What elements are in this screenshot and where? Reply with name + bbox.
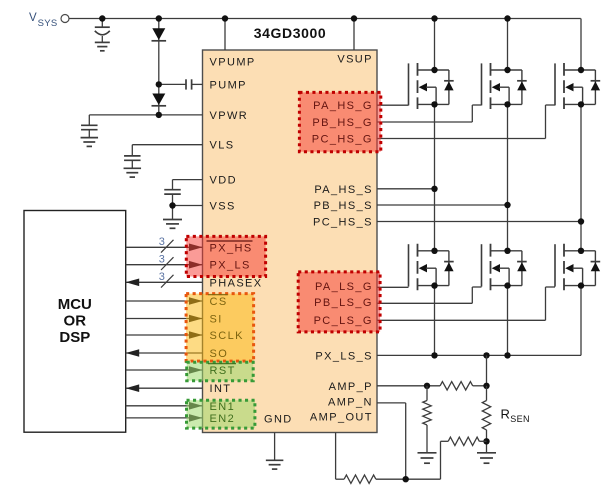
resistor RSEN (482, 386, 490, 453)
pin label VSS (210, 201, 236, 213)
pin label VLS (210, 140, 235, 152)
junction rail-C1 (99, 15, 105, 21)
highlight box RST (187, 362, 254, 380)
pin label AMP_P (329, 381, 373, 393)
svg-text:INT: INT (210, 383, 232, 395)
label 34GD3000 (254, 25, 327, 41)
transistor Q5 (phase C high-side) (555, 63, 600, 109)
wire PA_HS_G (377, 104, 409, 106)
pin label RST (208, 364, 236, 377)
svg-text:SEN: SEN (510, 414, 530, 424)
wire feedback to sense (441, 441, 449, 479)
wire VPWR (89, 114, 202, 116)
svg-text:AMP_N: AMP_N (328, 396, 373, 408)
resistor R3 (AMP_OUT feedback) (344, 475, 440, 483)
ground (IC GND) (266, 460, 284, 469)
label VSYS (29, 12, 58, 29)
svg-text:SI: SI (210, 314, 223, 326)
pin label VPUMP (210, 57, 256, 69)
transistor Q6 (phase C low-side) (555, 244, 600, 290)
svg-text:PC_HS_G: PC_HS_G (312, 134, 373, 146)
wire VDD (173, 179, 203, 181)
bus width label 3 (PX_LS) (159, 253, 165, 265)
svg-text:DSP: DSP (59, 329, 90, 346)
pin label PUMP (210, 79, 247, 91)
wire AMP_N (377, 403, 406, 479)
svg-text:3: 3 (159, 271, 165, 283)
junction rail-Q1 drain (431, 15, 437, 21)
wire PA_HS_S (377, 188, 435, 190)
pin label PC_LS_G (314, 315, 373, 327)
svg-text:PB_HS_S: PB_HS_S (314, 200, 373, 212)
svg-text:GND: GND (264, 414, 293, 426)
wire PB_HS_G (377, 105, 482, 122)
svg-text:34GD3000: 34GD3000 (254, 25, 327, 41)
MCU/DSP block (24, 211, 126, 433)
wire AMP_OUT (336, 433, 345, 480)
resistor R1 (AMP_P series) (440, 382, 486, 390)
svg-text:SYS: SYS (38, 18, 58, 29)
transistor Q3 (phase B high-side) (482, 63, 527, 109)
svg-text:3: 3 (159, 236, 165, 248)
wire RST (126, 366, 203, 374)
pin label PX_HS (207, 241, 253, 254)
svg-text:RST: RST (210, 365, 236, 377)
svg-text:PX_HS: PX_HS (210, 242, 253, 254)
pin label AMP_OUT (310, 412, 373, 424)
pin label SO (210, 348, 229, 360)
ground (R2) (418, 453, 437, 463)
junction rail-Q3 drain (504, 15, 510, 21)
capacitor C4 (VLS bypass) (124, 145, 141, 169)
wire PUMP (159, 83, 203, 85)
junction rail-D1 (156, 15, 162, 21)
junction D2-VPWR (156, 112, 162, 118)
wire SCLK (126, 331, 203, 339)
junction AMP_N node (403, 476, 409, 482)
pin label PHASEX (210, 277, 263, 289)
wire PA_LS_G (377, 286, 409, 288)
svg-text:PB_HS_G: PB_HS_G (312, 117, 373, 129)
svg-text:3: 3 (159, 253, 165, 265)
label MCU OR DSP (58, 296, 92, 346)
wire INT (126, 384, 203, 392)
svg-text:VLS: VLS (210, 140, 235, 152)
resistor R4 (AMP_N to sense) (448, 437, 486, 445)
wire PX_LS_S (377, 354, 581, 356)
wire PC_HS_G (377, 105, 555, 139)
capacitor C5 (VDD bypass) (164, 180, 181, 206)
pin label EN1 (210, 401, 236, 413)
highlight box HS gates (299, 92, 380, 151)
wire PB_LS_G (377, 287, 482, 303)
svg-text:SCLK: SCLK (210, 330, 244, 342)
svg-text:PX_LS_S: PX_LS_S (315, 351, 373, 363)
wire PX_HS (bus of 3) (126, 240, 203, 253)
wire phase B column (507, 19, 509, 356)
svg-text:PUMP: PUMP (210, 79, 247, 91)
pin label GND (264, 414, 293, 426)
ground (VSS) (163, 220, 182, 229)
highlight box EN1/EN2 (187, 400, 255, 428)
junction AMP_P-R2 (424, 383, 430, 389)
svg-text:AMP_P: AMP_P (329, 381, 373, 393)
highlight box PX_HS/PX_LS (186, 236, 265, 276)
svg-text:VSUP: VSUP (337, 54, 373, 66)
node VSYS terminal (61, 15, 69, 23)
svg-text:PX_LS: PX_LS (210, 260, 251, 272)
wire EN2 (126, 414, 203, 422)
svg-text:PC_LS_G: PC_LS_G (314, 315, 373, 327)
svg-text:EN1: EN1 (210, 401, 236, 413)
wire AMP_P (377, 385, 440, 387)
svg-text:OR: OR (64, 313, 87, 330)
svg-text:PA_HS_S: PA_HS_S (314, 184, 373, 196)
junction rail-VSUP (351, 15, 357, 21)
svg-text:CS: CS (210, 296, 228, 308)
highlight box SPI (CS/SI/SCLK/SO) (186, 294, 254, 362)
bus width label 3 (PHASEX) (159, 271, 165, 283)
pin label PA_HS_G (313, 100, 373, 112)
junction PX_LS_S-Q4 (504, 352, 510, 358)
junction D1-D2 PUMP (156, 81, 162, 87)
svg-text:R: R (501, 406, 510, 421)
svg-text:V: V (29, 12, 37, 24)
pin label INT (210, 383, 232, 395)
wire PHASEX (bus of 3) (126, 275, 203, 288)
wire PC_HS_S (377, 221, 581, 223)
pin label PB_HS_G (312, 117, 373, 129)
svg-text:MCU: MCU (58, 296, 92, 313)
svg-text:PC_HS_S: PC_HS_S (313, 217, 373, 229)
pin label PX_LS (210, 260, 251, 272)
wire SO (126, 349, 203, 357)
wire PB_HS_S (377, 204, 508, 206)
pin label VPWR (210, 110, 249, 122)
svg-text:VSS: VSS (210, 201, 236, 213)
svg-text:VDD: VDD (210, 175, 237, 187)
pin label PA_HS_S (314, 184, 373, 196)
wire VLS (132, 144, 202, 146)
pin label PB_LS_G (314, 297, 373, 309)
junction PX_LS_S-Q2 (431, 352, 437, 358)
pin label SI (210, 314, 223, 326)
ground (RSEN) (477, 453, 496, 463)
wire PX_LS_S to sense node (486, 355, 488, 385)
wire VSYS rail (69, 18, 581, 20)
capacitor C3 (VPWR bypass) (81, 115, 98, 138)
pin label CS (208, 295, 228, 308)
transistor Q2 (phase A low-side) (409, 244, 454, 290)
junction sense node (483, 383, 489, 389)
pin label AMP_N (328, 396, 373, 408)
wire CS (126, 297, 203, 305)
wire PC_LS_G (377, 287, 555, 320)
junction rail-VPUMP (222, 15, 228, 21)
svg-text:PB_LS_G: PB_LS_G (314, 297, 373, 309)
wire phase C column (580, 19, 582, 356)
pin label PB_HS_S (314, 200, 373, 212)
pin label PA_LS_G (315, 281, 373, 293)
pin label SCLK (210, 330, 244, 342)
junction PB_HS_S (504, 202, 510, 208)
diode D2 (152, 94, 167, 106)
wire diode chain (158, 19, 160, 115)
svg-text:PA_HS_G: PA_HS_G (313, 100, 373, 112)
capacitor C2 (PUMP) (186, 79, 192, 89)
wire phase A column (434, 19, 436, 356)
pin label PC_HS_S (313, 217, 373, 229)
highlight box LS gates (298, 272, 380, 332)
ground (C4) (124, 168, 142, 177)
svg-text:AMP_OUT: AMP_OUT (310, 412, 373, 424)
junction VSS/C5 (169, 202, 175, 208)
transistor Q1 (phase A high-side) (409, 63, 454, 109)
transistor Q4 (phase B low-side) (482, 244, 527, 290)
junction PA_HS_S (431, 186, 437, 192)
ground (C1) (95, 42, 110, 50)
svg-text:PA_LS_G: PA_LS_G (315, 281, 373, 293)
svg-text:VPWR: VPWR (210, 110, 249, 122)
svg-text:VPUMP: VPUMP (210, 57, 256, 69)
pin label VSUP (337, 54, 373, 66)
wire GND (274, 433, 276, 461)
wire VSS (173, 206, 203, 220)
junction RSEN-R4 (483, 438, 489, 444)
junction PX_LS_S-RSEN (483, 352, 489, 358)
wire SI (126, 315, 203, 323)
pin label EN2 (210, 413, 236, 425)
resistor R2 (AMP_P to gnd) (423, 386, 431, 453)
wire VSUP top entry (353, 19, 355, 51)
capacitor C1 (VSYS bulk, polarized) (95, 19, 110, 43)
svg-text:SO: SO (210, 348, 229, 360)
bus width label 3 (PX_HS) (159, 236, 165, 248)
pin label PC_HS_G (312, 134, 373, 146)
IC U1 34GD3000 body (203, 50, 378, 433)
pin label VDD (210, 175, 237, 187)
ground (C3) (81, 138, 99, 147)
svg-text:PHASEX: PHASEX (210, 277, 263, 289)
diode D1 (152, 28, 167, 41)
wire VPUMP top entry (224, 19, 226, 51)
svg-text:EN2: EN2 (210, 413, 236, 425)
wire EN1 (126, 402, 203, 410)
pin label PX_LS_S (315, 351, 373, 363)
junction PC_HS_S (578, 218, 584, 224)
wire PX_LS (bus of 3) (126, 257, 203, 270)
label RSEN (501, 406, 530, 424)
